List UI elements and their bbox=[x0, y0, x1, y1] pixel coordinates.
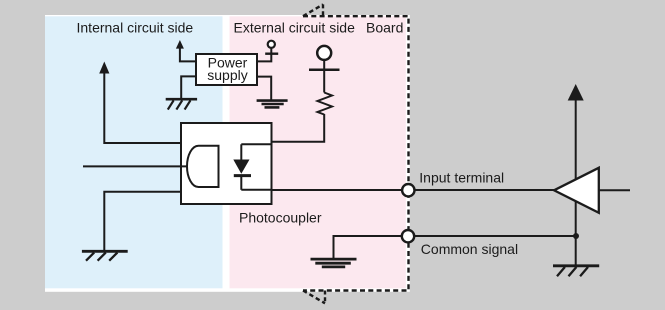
wire: common signal to earth ground bbox=[334, 236, 409, 259]
terminal: power supply output (small circle) bbox=[265, 41, 278, 54]
power rail arrow (internal circuit Vcc) bbox=[99, 62, 109, 74]
power rail arrow (power supply) bbox=[176, 40, 184, 49]
wire: power supply left Vcc bbox=[180, 48, 196, 62]
node: common signal terminal bbox=[402, 230, 414, 242]
wire: cathode to box edge bbox=[241, 189, 271, 191]
receiver buffer (triangle) bbox=[554, 168, 599, 213]
svg-text:Board: Board bbox=[366, 20, 403, 36]
svg-text:External circuit side: External circuit side bbox=[234, 20, 356, 36]
wire: power supply output to terminal bbox=[257, 48, 271, 61]
wire: photocoupler middle pin stub bbox=[83, 165, 188, 167]
power rail arrow (external receiver Vcc) bbox=[568, 84, 584, 101]
figure white base bbox=[45, 15, 410, 292]
ground: power supply chassis ground bbox=[166, 99, 197, 109]
wire: photocoupler cathode to input terminal and receiver bbox=[272, 189, 555, 191]
wire: common signal line bbox=[408, 235, 576, 237]
node: input terminal bbox=[402, 184, 414, 196]
junction dot on common signal bbox=[573, 233, 579, 239]
ground: power supply earth ground bbox=[257, 101, 288, 108]
wire: power supply left to chassis ground bbox=[181, 76, 196, 99]
svg-text:Common signal: Common signal bbox=[421, 241, 518, 257]
internal circuit side region bbox=[45, 16, 223, 288]
resistor R (pull-up) bbox=[318, 93, 333, 115]
ground: common signal earth ground bbox=[311, 259, 357, 267]
photodetector (D shape) bbox=[187, 146, 219, 187]
terminal: external supply input (circle with bar) bbox=[309, 46, 340, 93]
wire: resistor to photocoupler anode bbox=[272, 114, 325, 142]
wire: power supply to earth ground bbox=[257, 77, 271, 100]
wire: external Vcc rail (receiver) bbox=[575, 99, 577, 265]
svg-text:Input terminal: Input terminal bbox=[419, 170, 504, 186]
power supply box bbox=[196, 54, 257, 85]
ground: internal circuit chassis ground bbox=[82, 251, 128, 260]
ground: receiver chassis ground bbox=[553, 266, 599, 276]
wire: internal Vcc rail to photocoupler pin (top-left) bbox=[104, 73, 181, 144]
wire: photocoupler bottom-left pin to internal ground bbox=[104, 192, 181, 252]
svg-text:Internal circuit side: Internal circuit side bbox=[77, 20, 194, 36]
wire: buffer output stub bbox=[599, 189, 630, 191]
board outline (dashed) bbox=[303, 4, 409, 303]
LED diode of photocoupler bbox=[233, 144, 251, 190]
external circuit side region bbox=[230, 16, 406, 288]
wire: anode to box edge bbox=[241, 143, 271, 145]
svg-text:supply: supply bbox=[207, 67, 247, 83]
photocoupler box bbox=[181, 123, 272, 204]
svg-text:Photocoupler: Photocoupler bbox=[239, 209, 322, 225]
